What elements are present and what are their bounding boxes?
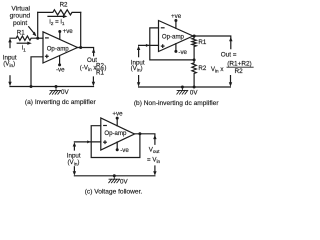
input down arrow (a) <box>8 76 11 86</box>
svg-text:R1: R1 <box>198 39 206 46</box>
pin: inverting input minus (a) <box>46 37 49 39</box>
resistor R1 with wire <box>10 36 38 40</box>
op-amp U3 triangle (c) <box>101 118 135 150</box>
junction node on ground rail (a) <box>30 85 33 88</box>
svg-text:+ve: +ve <box>63 28 74 35</box>
ground symbol (a) <box>50 85 61 94</box>
ground rail wire (b) <box>139 86 231 88</box>
ground rail wire (a) <box>10 86 94 88</box>
label output formula (a) <box>80 63 107 77</box>
node: output junction (c) <box>138 132 141 135</box>
input up arrow (a) <box>8 38 11 48</box>
wire: feedback loop (c) <box>91 126 140 158</box>
svg-text:R2: R2 <box>235 68 244 75</box>
ground rail wire (c) <box>74 175 154 177</box>
resistor R2 (b) <box>192 60 196 87</box>
svg-text:+ve: +ve <box>171 13 182 20</box>
svg-text:R2: R2 <box>198 65 206 72</box>
svg-text:(c) Voltage follower.: (c) Voltage follower. <box>85 189 143 196</box>
op-amp U2 triangle (b) <box>159 21 194 52</box>
arrowhead up at output corner (c) <box>153 135 156 139</box>
svg-text:+ve: +ve <box>112 110 123 117</box>
node: output junction (a) <box>79 46 82 49</box>
wire: input to non-inverting input (c) <box>74 141 100 143</box>
svg-text:ground: ground <box>10 13 31 20</box>
-ve supply pin (b) <box>174 44 177 53</box>
resistor R2 with feedback top wire <box>38 10 81 15</box>
input down arrow (b) <box>137 76 140 87</box>
output down arrow (a) <box>92 77 95 86</box>
+ve supply pin (b) <box>174 19 177 28</box>
pin: non-inverting input plus (c) <box>104 141 107 144</box>
wire node to op-amp inverting input <box>38 37 43 39</box>
arrowhead up at output corner (a) <box>92 48 95 52</box>
svg-text:Op-amp: Op-amp <box>47 45 70 52</box>
svg-text:-ve: -ve <box>120 147 129 154</box>
svg-text:point: point <box>13 20 27 27</box>
svg-text:0V: 0V <box>120 179 128 186</box>
wire: feedback branch down to output <box>80 12 82 47</box>
label Input (Vin) (c) <box>67 153 81 168</box>
wire: output (c) <box>135 134 155 145</box>
wire: output (b) <box>193 36 231 49</box>
fraction bar R2/R1 <box>95 68 103 70</box>
svg-text:0V: 0V <box>190 90 198 97</box>
svg-text:Op-amp: Op-amp <box>104 130 127 137</box>
svg-text:Virtual: Virtual <box>11 6 30 13</box>
+ve supply pin (a) <box>58 30 61 39</box>
signal arrowhead on input wire (b) <box>146 44 149 47</box>
arrowhead up at output corner (b) <box>229 37 232 41</box>
+ve supply pin (c) <box>116 117 119 126</box>
signal arrowhead on input wire (c) <box>87 140 90 143</box>
svg-text:0V: 0V <box>61 89 69 96</box>
node: R2 bottom on ground rail <box>193 86 196 89</box>
wire: feedback from inverting input (b) <box>150 28 194 60</box>
label Input (Vin) (b) <box>131 59 145 73</box>
pin: inverting input minus (b) <box>161 27 164 29</box>
svg-text:R1: R1 <box>17 29 25 36</box>
svg-text:(R1+R2): (R1+R2) <box>227 61 251 68</box>
label Vout = Vin (c) <box>147 147 161 165</box>
ground symbol (b) <box>177 86 188 95</box>
ground symbol (c) <box>109 174 120 183</box>
node: feedback junction R1/R2 <box>193 58 196 61</box>
-ve supply pin (a) <box>58 56 61 67</box>
-ve supply pin (c) <box>116 142 119 151</box>
output down arrow (c) <box>153 166 156 176</box>
pin: inverting input minus (c) <box>104 125 107 127</box>
label Out = formula (b) <box>211 51 252 75</box>
svg-text:-ve: -ve <box>178 49 187 56</box>
label: Virtual ground point <box>10 6 31 27</box>
svg-text:-ve: -ve <box>56 66 65 73</box>
svg-text:Out =: Out = <box>221 51 237 58</box>
svg-text:Op-amp: Op-amp <box>162 33 185 40</box>
leader arrow to virtual ground node <box>29 27 37 37</box>
input up arrow (b) <box>137 46 140 57</box>
pin: non-inverting input plus (b) <box>161 45 164 48</box>
node: virtual ground junction <box>36 37 39 40</box>
current arrow i2 <box>48 15 67 18</box>
wire: non-inverting input to ground (a) <box>31 57 43 87</box>
pin: non-inverting input plus (a) <box>46 55 49 58</box>
svg-text:(a) Inverting dc amplifier: (a) Inverting dc amplifier <box>25 99 97 106</box>
current arrow i1 <box>17 42 32 45</box>
output down arrow (b) <box>229 76 232 87</box>
fraction bar (R1+R2)/R2 <box>227 66 253 68</box>
resistor R1 (b) <box>192 36 196 60</box>
op-amp U1 triangle (a) <box>43 32 78 63</box>
svg-text:R2: R2 <box>60 1 68 8</box>
wire: input to non-inverting input (b) <box>139 44 159 46</box>
input down arrow (c) <box>73 167 76 176</box>
svg-text:R1: R1 <box>96 70 104 77</box>
svg-text:): ) <box>104 64 106 71</box>
node: output junction (b) <box>193 35 196 38</box>
input up arrow (c) <box>73 142 76 150</box>
label Input (Vin) (a) <box>3 55 17 69</box>
wire: feedback branch up <box>37 12 39 38</box>
wire: op-amp output (a) <box>78 48 94 56</box>
svg-text:(b) Non-inverting dc amplifier: (b) Non-inverting dc amplifier <box>134 100 219 107</box>
svg-text:R2: R2 <box>96 63 104 70</box>
